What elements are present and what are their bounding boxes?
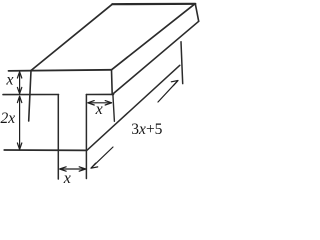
wire far right vertical edge [181, 42, 183, 84]
wire back right edge [195, 4, 198, 22]
wire top face back edge [112, 3, 195, 6]
dimension arrow x vertical [19, 72, 21, 93]
wire step level depth edge [112, 21, 198, 94]
wire step line left segment [3, 94, 59, 96]
wire bottom edge [4, 149, 86, 151]
wire extension below C [113, 95, 115, 122]
wire leg right edge [85, 95, 87, 179]
dimension arrow x middle horizontal [88, 102, 111, 104]
dimension arrow 3x+5 upper segment [158, 81, 178, 102]
wire top front edge with left extension [9, 70, 112, 71]
svg-text:3x+5: 3x+5 [131, 121, 162, 138]
wire step line right segment [86, 93, 113, 95]
dimension arrow x bottom horizontal [60, 168, 85, 170]
wire front left edge [29, 71, 31, 122]
wire top face left depth edge [31, 4, 112, 70]
svg-text:x: x [63, 170, 71, 184]
svg-text:x: x [5, 72, 13, 89]
dimension arrow 3x+5 lower segment [91, 147, 113, 168]
wire leg left edge [57, 95, 59, 180]
wire bar right front edge [111, 70, 114, 95]
dimension arrow 2x vertical [19, 97, 21, 150]
svg-text:x: x [95, 101, 103, 118]
wire bottom depth edge [87, 65, 180, 150]
wire top face right depth edge [112, 4, 195, 70]
svg-text:2x: 2x [1, 110, 16, 127]
